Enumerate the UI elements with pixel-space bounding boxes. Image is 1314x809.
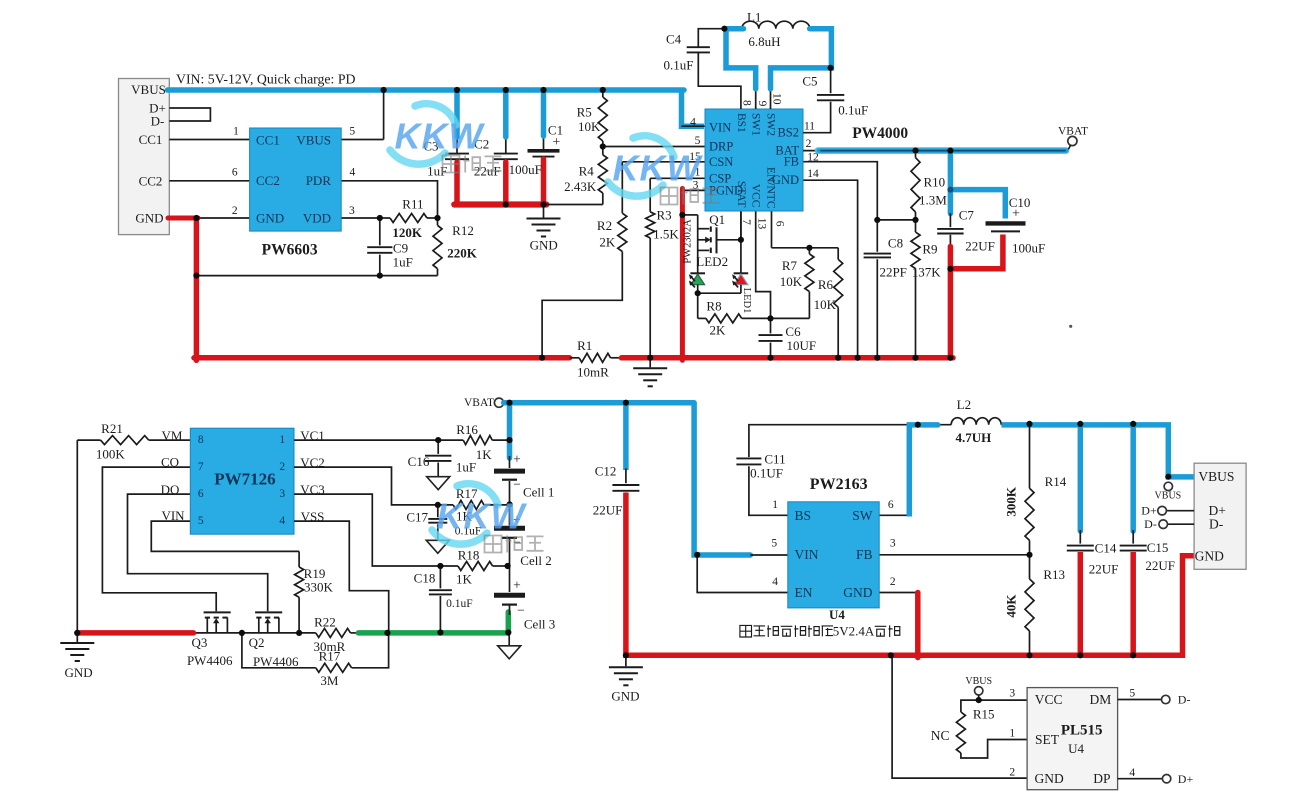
svg-text:KKW: KKW xyxy=(613,148,704,189)
svg-text:BS: BS xyxy=(795,508,812,523)
svg-text:EN: EN xyxy=(795,585,813,600)
svg-text:LED2: LED2 xyxy=(696,254,728,269)
svg-text:CC2: CC2 xyxy=(256,173,280,188)
svg-text:EN/NTC: EN/NTC xyxy=(765,167,777,209)
svg-text:5: 5 xyxy=(1129,688,1135,700)
svg-text:R19: R19 xyxy=(304,566,326,581)
svg-text:VBUS: VBUS xyxy=(1155,490,1182,501)
svg-text:1: 1 xyxy=(233,126,239,138)
svg-text:KKW: KKW xyxy=(395,116,486,157)
svg-text:2: 2 xyxy=(232,205,238,217)
svg-text:KKW: KKW xyxy=(437,496,528,537)
svg-text:7: 7 xyxy=(740,219,752,225)
svg-text:VCC: VCC xyxy=(1035,692,1063,707)
svg-text:PW7126: PW7126 xyxy=(214,469,275,488)
svg-text:R7: R7 xyxy=(782,258,798,273)
svg-text:VIN: 5V-12V, Quick charge:: VIN: 5V-12V, Quick charge: PD xyxy=(176,71,356,86)
svg-text:4: 4 xyxy=(1129,767,1135,779)
svg-text:CC1: CC1 xyxy=(256,132,280,147)
svg-text:C5: C5 xyxy=(802,74,817,89)
svg-text:11: 11 xyxy=(804,121,815,133)
svg-text:2: 2 xyxy=(1009,766,1015,778)
svg-text:R17: R17 xyxy=(319,649,341,664)
svg-text:3: 3 xyxy=(349,205,355,217)
svg-text:10mR: 10mR xyxy=(577,364,609,379)
svg-text:BS2: BS2 xyxy=(777,126,799,140)
svg-text:1uF: 1uF xyxy=(456,460,476,475)
svg-text:3: 3 xyxy=(890,538,896,550)
svg-text:300K: 300K xyxy=(1004,486,1019,517)
svg-text:GND: GND xyxy=(65,665,93,680)
svg-text:10K: 10K xyxy=(578,119,601,134)
svg-text:13: 13 xyxy=(755,218,767,230)
svg-text:VBUS: VBUS xyxy=(131,82,166,97)
svg-text:DRP: DRP xyxy=(709,140,733,154)
svg-text:R6: R6 xyxy=(818,277,834,292)
svg-text:−: − xyxy=(517,602,525,617)
svg-text:R16: R16 xyxy=(456,422,478,437)
svg-text:5: 5 xyxy=(198,515,204,527)
svg-text:Q3: Q3 xyxy=(192,635,208,650)
svg-text:R11: R11 xyxy=(402,197,423,212)
svg-text:3: 3 xyxy=(1009,688,1015,700)
svg-text:D-: D- xyxy=(1178,692,1191,706)
svg-text:Cell 1: Cell 1 xyxy=(523,485,554,500)
svg-text:VIN: VIN xyxy=(161,508,185,523)
svg-text:VIN: VIN xyxy=(795,547,819,562)
svg-text:D+: D+ xyxy=(1178,772,1194,786)
svg-text:22UF: 22UF xyxy=(965,239,995,254)
svg-text:Cell 3: Cell 3 xyxy=(524,617,555,632)
svg-text:VBUS: VBUS xyxy=(296,132,331,147)
svg-text:DP: DP xyxy=(1093,771,1110,786)
svg-text:+: + xyxy=(513,452,521,467)
svg-text:C18: C18 xyxy=(414,570,436,585)
svg-text:PL515: PL515 xyxy=(1061,723,1103,739)
svg-text:R10: R10 xyxy=(923,175,945,190)
svg-text:Q1: Q1 xyxy=(709,212,725,227)
svg-text:GND: GND xyxy=(1034,771,1063,786)
svg-text:2.43K: 2.43K xyxy=(564,179,597,194)
svg-text:SW2: SW2 xyxy=(765,113,777,136)
svg-text:2: 2 xyxy=(279,461,285,473)
svg-text:C11: C11 xyxy=(764,452,785,467)
svg-text:VBUS: VBUS xyxy=(965,676,992,687)
svg-text:14: 14 xyxy=(807,168,819,180)
svg-text:1K: 1K xyxy=(476,447,493,462)
svg-text:2: 2 xyxy=(890,576,896,588)
svg-text:R22: R22 xyxy=(314,614,336,629)
svg-text:10UF: 10UF xyxy=(786,338,816,353)
svg-text:1: 1 xyxy=(279,434,285,446)
svg-text:PW4406: PW4406 xyxy=(253,654,299,669)
svg-text:+: + xyxy=(513,577,521,592)
svg-text:VM: VM xyxy=(162,428,183,443)
svg-text:R3: R3 xyxy=(657,208,672,223)
svg-text:Cell 2: Cell 2 xyxy=(520,553,551,568)
svg-text:C17: C17 xyxy=(406,510,428,525)
svg-text:220K: 220K xyxy=(447,245,478,260)
svg-text:VIN: VIN xyxy=(709,121,731,135)
svg-text:LED1: LED1 xyxy=(741,288,752,314)
svg-text:VCC: VCC xyxy=(750,184,762,208)
svg-text:VBUS: VBUS xyxy=(1198,469,1234,484)
svg-text:120K: 120K xyxy=(392,225,423,240)
svg-text:R1: R1 xyxy=(577,338,592,353)
svg-text:0.1uF: 0.1uF xyxy=(664,57,694,72)
svg-text:22UF: 22UF xyxy=(1089,561,1119,576)
svg-text:VBAT: VBAT xyxy=(1058,126,1088,138)
svg-text:C15: C15 xyxy=(1147,540,1169,555)
svg-text:1K: 1K xyxy=(456,571,473,586)
svg-text:5: 5 xyxy=(771,538,777,550)
svg-text:D-: D- xyxy=(151,114,165,129)
svg-text:L2: L2 xyxy=(957,397,971,412)
svg-text:1.3M: 1.3M xyxy=(919,193,947,208)
svg-text:U4: U4 xyxy=(1068,741,1084,756)
svg-text:100K: 100K xyxy=(96,446,126,461)
svg-text:U4: U4 xyxy=(829,607,845,622)
svg-text:VDD: VDD xyxy=(303,210,331,225)
svg-text:PW4000: PW4000 xyxy=(852,125,908,142)
svg-text:SW: SW xyxy=(852,508,873,523)
svg-text:R14: R14 xyxy=(1045,474,1067,489)
svg-text:C7: C7 xyxy=(959,208,975,223)
svg-text:PW4406: PW4406 xyxy=(187,653,233,668)
svg-text:4.7UH: 4.7UH xyxy=(956,430,992,445)
svg-text:SET: SET xyxy=(1035,732,1060,747)
svg-text:D+: D+ xyxy=(1141,504,1157,518)
svg-text:3M: 3M xyxy=(320,673,339,688)
svg-text:CSN: CSN xyxy=(709,155,733,169)
svg-text:GND: GND xyxy=(843,585,872,600)
svg-text:4: 4 xyxy=(350,167,356,179)
svg-text:1: 1 xyxy=(1009,727,1015,739)
svg-text:C6: C6 xyxy=(785,324,801,339)
svg-text:C4: C4 xyxy=(666,32,682,47)
svg-text:FB: FB xyxy=(856,547,873,562)
svg-text:6: 6 xyxy=(198,488,204,500)
svg-text:6: 6 xyxy=(774,221,786,227)
svg-text:VBAT: VBAT xyxy=(464,397,494,409)
svg-text:DM: DM xyxy=(1090,692,1112,707)
svg-text:0.1uF: 0.1uF xyxy=(838,102,868,117)
svg-text:−: − xyxy=(513,476,521,491)
svg-text:1uF: 1uF xyxy=(393,255,413,270)
svg-text:R13: R13 xyxy=(1043,567,1065,582)
svg-text:10: 10 xyxy=(771,93,783,105)
svg-text:4: 4 xyxy=(279,515,285,527)
svg-text:137K: 137K xyxy=(912,265,942,280)
svg-text:3: 3 xyxy=(279,488,285,500)
svg-text:C14: C14 xyxy=(1095,541,1117,556)
svg-text:GND: GND xyxy=(530,238,558,253)
svg-text:PDR: PDR xyxy=(306,173,332,188)
svg-text:C8: C8 xyxy=(888,235,903,250)
svg-text:CC2: CC2 xyxy=(139,173,163,188)
svg-text:9: 9 xyxy=(756,101,768,107)
svg-text:D-: D- xyxy=(1209,517,1224,532)
svg-text:BS1: BS1 xyxy=(735,113,747,133)
svg-text:GND: GND xyxy=(135,211,163,226)
svg-text:22PF: 22PF xyxy=(879,265,906,280)
svg-text:D-: D- xyxy=(1144,517,1157,531)
svg-text:GND: GND xyxy=(1195,548,1224,563)
svg-text:C16: C16 xyxy=(408,454,430,469)
svg-text:2K: 2K xyxy=(599,235,616,250)
svg-text:R12: R12 xyxy=(452,223,474,238)
svg-text:10K: 10K xyxy=(780,274,803,289)
svg-text:22UF: 22UF xyxy=(1145,558,1175,573)
svg-text:0.1uF: 0.1uF xyxy=(446,598,473,610)
svg-text:R9: R9 xyxy=(922,242,937,257)
svg-text:6: 6 xyxy=(888,499,894,511)
svg-text:6.8uH: 6.8uH xyxy=(748,34,780,49)
svg-text:NC: NC xyxy=(931,728,950,743)
svg-text:Q2: Q2 xyxy=(249,635,265,650)
svg-text:6: 6 xyxy=(232,167,238,179)
svg-text:+: + xyxy=(552,135,560,150)
svg-text:L1: L1 xyxy=(747,9,761,24)
svg-text:8: 8 xyxy=(741,100,753,106)
svg-text:SW1: SW1 xyxy=(750,113,762,136)
svg-text:1.5K: 1.5K xyxy=(653,226,679,241)
svg-text:8: 8 xyxy=(198,434,204,446)
svg-text:4: 4 xyxy=(772,576,778,588)
svg-text:PW2163: PW2163 xyxy=(810,476,868,493)
svg-text:PW6603: PW6603 xyxy=(262,242,318,259)
svg-text:R21: R21 xyxy=(101,421,123,436)
svg-text:0.1UF: 0.1UF xyxy=(750,466,783,481)
svg-text:R15: R15 xyxy=(973,707,995,722)
svg-text:2K: 2K xyxy=(709,322,726,337)
svg-text:5: 5 xyxy=(695,135,701,147)
svg-text:C9: C9 xyxy=(393,241,408,256)
svg-text:1: 1 xyxy=(772,499,778,511)
svg-text:GND: GND xyxy=(256,210,284,225)
svg-text:+: + xyxy=(1012,207,1020,222)
svg-text:DO: DO xyxy=(161,482,180,497)
svg-text:40K: 40K xyxy=(1004,594,1019,618)
svg-text:5: 5 xyxy=(349,126,355,138)
svg-text:CO: CO xyxy=(161,455,179,470)
svg-text:R2: R2 xyxy=(597,218,612,233)
svg-text:PW2302A: PW2302A xyxy=(683,219,694,264)
svg-text:R4: R4 xyxy=(579,164,595,179)
svg-text:R8: R8 xyxy=(706,299,721,314)
svg-text:R5: R5 xyxy=(577,105,592,120)
svg-text:100uF: 100uF xyxy=(1012,241,1045,256)
svg-text:R18: R18 xyxy=(458,547,480,562)
svg-text:330K: 330K xyxy=(304,580,334,595)
svg-text:5V2.4A: 5V2.4A xyxy=(833,624,875,639)
svg-text:FB: FB xyxy=(784,155,799,169)
svg-text:C12: C12 xyxy=(595,464,617,479)
svg-text:7: 7 xyxy=(198,461,204,473)
svg-text:4: 4 xyxy=(690,117,696,129)
svg-text:GND: GND xyxy=(611,689,639,704)
svg-text:STAT: STAT xyxy=(735,181,747,208)
svg-text:10K: 10K xyxy=(814,297,837,312)
svg-text:22UF: 22UF xyxy=(593,502,623,517)
svg-text:100uF: 100uF xyxy=(509,162,542,177)
svg-text:CC1: CC1 xyxy=(139,132,163,147)
svg-text:2: 2 xyxy=(806,138,812,150)
